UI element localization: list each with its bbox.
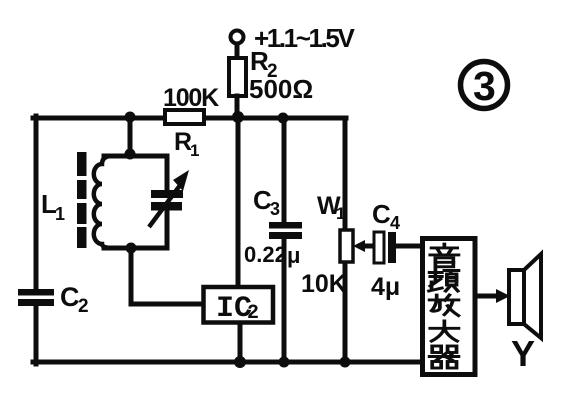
svg-text:500Ω: 500Ω — [249, 74, 313, 104]
wire R2 to top bus — [235, 96, 240, 118]
wire top bus — [33, 116, 346, 121]
svg-text:4μ: 4μ — [371, 273, 400, 301]
wire bottom bus — [33, 360, 422, 365]
char fang (release) — [430, 295, 459, 316]
svg-text:0.22: 0.22 — [244, 242, 287, 267]
node top bus / R2 — [232, 111, 244, 123]
wire tank bottom — [104, 246, 167, 251]
node bottom bus / IC2 — [234, 356, 246, 368]
svg-text:+1.1~1.5V: +1.1~1.5V — [254, 23, 355, 53]
wire tank stem bottom — [131, 248, 201, 304]
svg-text:10K: 10K — [301, 270, 347, 298]
svg-text:C: C — [60, 282, 80, 312]
wire terminal to R2 — [235, 44, 240, 60]
arrowhead to speaker — [496, 289, 510, 303]
variable capacitor plates — [151, 190, 183, 198]
char da (big) — [430, 321, 458, 341]
resistor R1 — [165, 110, 204, 124]
char pin (frequency) — [429, 269, 458, 291]
wire W1 wiper — [361, 244, 374, 249]
svg-text:1: 1 — [190, 141, 199, 160]
speaker Y — [509, 254, 541, 338]
wire tank right upper — [165, 156, 170, 191]
ferrite core dashes of L1 — [77, 152, 87, 176]
char qi (utensil) — [430, 346, 459, 368]
svg-text:100K: 100K — [163, 84, 219, 112]
wire C4 to amplifier — [396, 244, 421, 249]
svg-text:4: 4 — [390, 213, 400, 233]
potentiometer W1 body — [340, 230, 353, 262]
resistor R2 — [229, 58, 246, 96]
wire IC2 bottom pin — [238, 325, 243, 362]
wire tank right lower — [165, 209, 170, 248]
svg-text:Y: Y — [511, 333, 535, 374]
wire left branch upper — [34, 116, 39, 289]
node bottom bus / W1 — [340, 357, 351, 368]
variable capacitor arrow — [149, 170, 189, 227]
svg-text:3: 3 — [473, 63, 496, 109]
power terminal — [231, 31, 244, 44]
op-amp block IC2 — [204, 287, 274, 323]
wire IC2 top pin — [236, 118, 241, 284]
char yin (sound) — [430, 244, 458, 267]
node bottom bus / C3 — [279, 357, 290, 368]
svg-text:1: 1 — [55, 204, 65, 224]
svg-text:2: 2 — [78, 296, 89, 317]
wire tank top — [104, 154, 167, 159]
svg-text:2: 2 — [247, 302, 259, 325]
node top bus / tank — [125, 112, 136, 123]
capacitor C3 plates — [269, 222, 302, 229]
capacitor C2 plates — [18, 289, 54, 296]
wire amplifier to speaker — [476, 294, 498, 299]
svg-text:3: 3 — [270, 199, 280, 219]
capacitor C4 hollow plate — [374, 232, 384, 263]
potentiometer W1 wiper arrowhead — [353, 240, 365, 252]
node tank bottom — [126, 243, 137, 254]
node top bus / C3 — [278, 113, 289, 124]
wire C3 lower — [282, 239, 287, 362]
amplifier block (audio amplifier) — [423, 239, 476, 375]
amplifier Chinese text (drawn strokes) — [429, 244, 458, 368]
svg-text:μ: μ — [287, 243, 300, 268]
figure number circle 3 — [461, 62, 508, 109]
wire C3 upper — [282, 118, 287, 222]
node tank top — [125, 149, 136, 160]
svg-text:1: 1 — [336, 204, 345, 223]
wire right branch (W1 column) — [343, 118, 348, 362]
inductor L1 coil — [94, 156, 111, 248]
capacitor C4 solid plate — [388, 232, 396, 263]
wire tank stem top — [128, 118, 133, 156]
svg-text:C: C — [372, 199, 391, 229]
wire left branch lower — [34, 306, 39, 364]
